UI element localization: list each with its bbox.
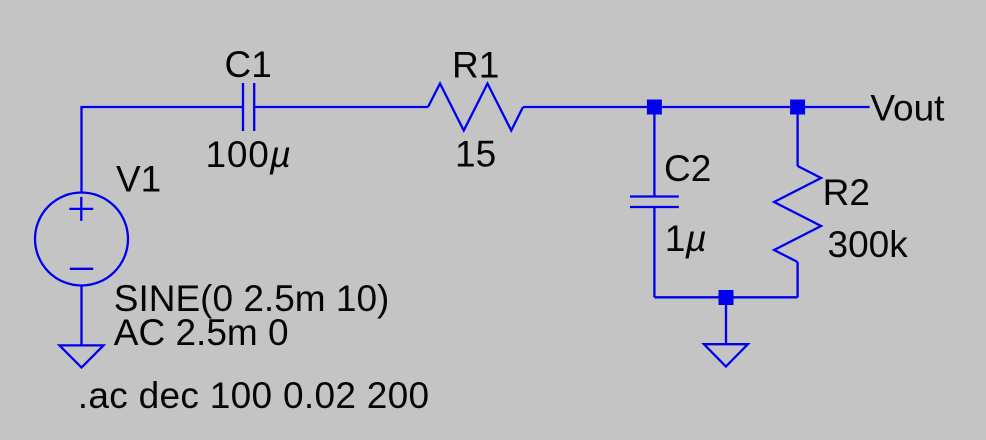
ground symbol at bottom xyxy=(704,344,748,366)
junction node at bottom ground xyxy=(719,290,734,305)
wire from bottom junction to ground xyxy=(725,297,727,344)
wire from V1 bottom to ground xyxy=(80,286,82,346)
wire from R1 to Vout xyxy=(523,106,870,108)
wire C2 bottom xyxy=(653,208,655,298)
svg-text:C1: C1 xyxy=(225,44,272,85)
capacitor C1 xyxy=(243,83,254,131)
svg-text:.ac dec 100 0.02 200: .ac dec 100 0.02 200 xyxy=(78,375,430,416)
svg-text:C2: C2 xyxy=(664,148,711,189)
svg-text:Vout: Vout xyxy=(870,88,945,129)
ground symbol under V1 xyxy=(60,345,104,367)
wire C2 top xyxy=(653,107,655,196)
capacitor C2 xyxy=(630,197,679,208)
wire R2 bottom xyxy=(796,262,798,297)
svg-text:100µ: 100µ xyxy=(206,134,292,175)
svg-text:R2: R2 xyxy=(823,172,870,213)
resistor R2 xyxy=(774,166,821,262)
svg-text:1µ: 1µ xyxy=(665,218,707,259)
wire from C1 to R1 xyxy=(255,106,428,108)
svg-text:AC 2.5m 0: AC 2.5m 0 xyxy=(114,312,289,353)
svg-text:V1: V1 xyxy=(116,159,161,200)
wire from V1 top to C1 left plate xyxy=(82,107,243,193)
junction node at R2 top / Vout xyxy=(790,100,805,115)
svg-text:300k: 300k xyxy=(828,224,909,265)
wire R2 top xyxy=(796,107,798,166)
V1 plus sign xyxy=(69,197,93,221)
junction node at C2 top xyxy=(647,100,662,115)
voltage source V1 xyxy=(35,193,128,286)
svg-text:15: 15 xyxy=(455,134,496,175)
bottom wire from C2 to R2 xyxy=(654,296,797,298)
V1 minus sign xyxy=(70,268,93,270)
svg-text:R1: R1 xyxy=(452,45,499,86)
resistor R1 xyxy=(428,84,523,131)
